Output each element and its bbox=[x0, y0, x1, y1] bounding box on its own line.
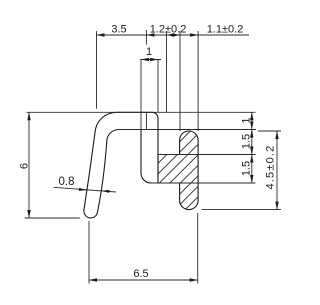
svg-text:3.5: 3.5 bbox=[111, 24, 126, 36]
svg-text:1: 1 bbox=[146, 46, 152, 58]
svg-text:1.2±0.2: 1.2±0.2 bbox=[150, 24, 187, 36]
svg-text:6.5: 6.5 bbox=[133, 268, 148, 280]
svg-text:1.5: 1.5 bbox=[241, 134, 253, 149]
svg-text:0.8: 0.8 bbox=[59, 176, 75, 188]
svg-text:6: 6 bbox=[18, 163, 30, 169]
svg-text:1.1±0.2: 1.1±0.2 bbox=[207, 24, 244, 36]
svg-text:4.5±0.2: 4.5±0.2 bbox=[264, 144, 276, 189]
svg-text:1.5: 1.5 bbox=[241, 161, 253, 176]
svg-text:1: 1 bbox=[241, 117, 253, 123]
